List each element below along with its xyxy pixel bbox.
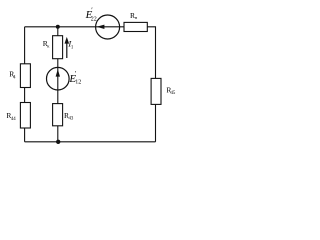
wire middle lower: R43 to bottom node bbox=[57, 126, 59, 142]
svg-text:22: 22 bbox=[91, 17, 97, 23]
node 2 (bottom junction dot) bbox=[56, 140, 60, 144]
current arrow I1 line bbox=[66, 43, 68, 59]
resistor R45 (right) bbox=[151, 78, 161, 104]
resistor R44 (left lower) bbox=[20, 103, 30, 129]
wire right lower: right resistor to bottom-right corner bbox=[155, 104, 157, 141]
wire left middle: R4 to R44 bbox=[24, 88, 26, 103]
node 1 (top junction dot) bbox=[56, 25, 60, 29]
svg-text:12: 12 bbox=[75, 79, 81, 85]
svg-text:44: 44 bbox=[11, 117, 16, 122]
wire left upper: top-left corner down to R4 bbox=[24, 27, 26, 64]
EMF source E'12 (circle) bbox=[47, 67, 70, 90]
wire middle upper: node 1 to Rk bbox=[57, 27, 59, 36]
resistor Rn (top right, horizontal) bbox=[124, 22, 147, 31]
wire top: from top-left corner through node 1 and E'22 to Rn bbox=[25, 26, 124, 28]
wire top-right: Rn to right corner, down to right resistor bbox=[147, 27, 155, 79]
svg-text:43: 43 bbox=[69, 117, 74, 122]
current arrow I1 head bbox=[65, 37, 70, 44]
wire left lower: R44 to bottom-left corner bbox=[24, 128, 26, 142]
svg-text:45: 45 bbox=[171, 91, 176, 96]
resistor R4 (left upper) bbox=[20, 64, 30, 88]
arrow of E'22 pointing left bbox=[97, 25, 105, 29]
resistor R43 (bottom middle) bbox=[53, 104, 63, 126]
wire middle: Rk through E'12 to R43 bbox=[57, 59, 59, 104]
wire bottom bbox=[25, 141, 156, 143]
arrow of E'12 pointing up bbox=[56, 69, 60, 76]
resistor Rk (middle branch) bbox=[53, 36, 63, 59]
EMF source E'22 (circle) bbox=[96, 15, 120, 39]
